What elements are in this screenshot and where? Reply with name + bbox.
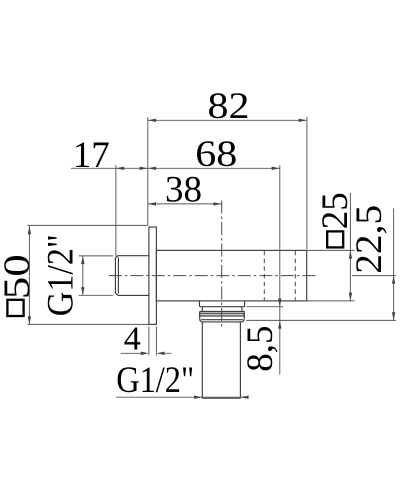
- outlet bead ring: [200, 311, 245, 322]
- extension flange bottom left: [27, 323, 148, 325]
- arrow G1/2 bottom left: [194, 396, 202, 399]
- horizontal centerline: [109, 275, 316, 277]
- svg-text:38: 38: [165, 170, 202, 211]
- extension body top right: [307, 249, 355, 251]
- extension bead bottom right: [246, 319, 396, 321]
- arrow 8,5 bottom (outside): [278, 320, 281, 328]
- arrow G1/2 bottom right: [240, 396, 248, 399]
- inlet thread chamfer line: [117, 257, 119, 293]
- dimension line G1/2 left: [82, 256, 84, 295]
- arrow 38 left: [148, 202, 156, 205]
- svg-text:22,5: 22,5: [349, 205, 390, 274]
- arrow 8,5 top (outside): [278, 299, 281, 307]
- svg-text:G1/2": G1/2": [116, 360, 194, 401]
- arrow 22,5 top: [392, 276, 395, 284]
- arrow G1/2 left bottom: [81, 287, 84, 295]
- outlet groove ring: [202, 307, 242, 312]
- arrow 38 right: [214, 202, 222, 205]
- extension thread top left: [79, 255, 114, 257]
- dimension line 82: [148, 119, 307, 121]
- hidden bore line 1 (dashed): [263, 251, 265, 301]
- dimension line 17 and 68: [71, 167, 280, 169]
- arrow 82 left: [148, 119, 156, 122]
- extension centerline right: [352, 275, 396, 277]
- arrow square50 top: [28, 226, 31, 234]
- arrow square25 bottom: [349, 293, 352, 301]
- svg-text:G1/2": G1/2": [41, 234, 82, 316]
- extension flange top left: [27, 224, 147, 226]
- extension flange thickness right: [155, 326, 157, 355]
- arrow 4 left (outside): [141, 352, 149, 355]
- dimension/leader line G1/2 bottom: [116, 396, 247, 398]
- square symbol of 25: [327, 231, 343, 247]
- arrow 17 left: [116, 167, 124, 170]
- dimension line 4 with tails: [121, 352, 172, 354]
- arrow G1/2 left top: [81, 256, 84, 264]
- dimension line 38: [148, 203, 222, 205]
- extension thread bottom left: [79, 294, 114, 296]
- arrow 68 right: [272, 167, 280, 170]
- extension neck bottom right: [247, 306, 283, 308]
- svg-text:8,5: 8,5: [240, 325, 281, 371]
- extension/dim line x=279.8 (68 and 8,5): [279, 165, 281, 374]
- svg-text:4: 4: [124, 320, 141, 357]
- extension line at wall face x=147.8: [147, 117, 149, 225]
- arrow 22,5 bottom: [392, 312, 395, 320]
- inlet thread G1/2 outline: [115, 256, 148, 296]
- svg-text:50: 50: [0, 254, 38, 299]
- square symbol of 50: [7, 300, 23, 316]
- dimension line square25: [349, 193, 351, 301]
- hidden bore line 2 (dashed): [294, 251, 296, 301]
- arrow 17 right: [140, 167, 148, 170]
- svg-text:82: 82: [208, 86, 250, 127]
- arrow 82 right: [299, 119, 307, 122]
- body square 25 (horizontal arm): [156, 250, 306, 301]
- wall flange plate (side view): [149, 227, 157, 324]
- arrow square25 top: [349, 250, 352, 258]
- dimension line 22,5: [393, 209, 395, 321]
- vertical outlet centerline: [221, 201, 223, 328]
- dimension line square50: [28, 226, 30, 324]
- arrow 4 right (outside): [156, 352, 164, 355]
- outlet neck ring: [200, 301, 245, 307]
- extension body bottom right: [307, 300, 355, 302]
- extension line at body end x=306.9: [306, 117, 308, 249]
- arrow square50 bottom: [28, 316, 31, 324]
- extension flange thickness left: [148, 326, 150, 355]
- bead inner lines: [200, 313, 245, 316]
- extension line at thread end x=115.9: [115, 165, 117, 257]
- svg-text:17: 17: [73, 135, 110, 176]
- outlet pipe G1/2: [202, 322, 240, 398]
- arrow 68 left: [148, 167, 156, 170]
